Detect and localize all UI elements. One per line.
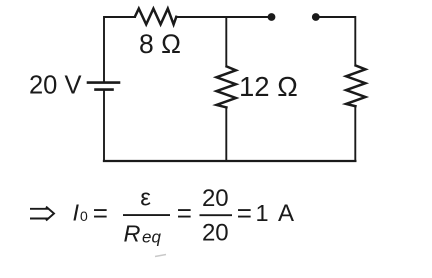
node A (junction of top wire and middle branch) bbox=[225, 17, 227, 67]
equation implies arrow bbox=[30, 207, 54, 221]
svg-text:R: R bbox=[124, 221, 141, 247]
switch S1 terminal dot left bbox=[268, 13, 276, 21]
wire top-right segment (switch to top-right corner) bbox=[316, 17, 356, 66]
wire right branch bottom (R3 to bottom-right corner) bbox=[354, 106, 356, 161]
svg-text:20: 20 bbox=[202, 185, 229, 212]
wire top-left segment (top-left corner to R1) bbox=[104, 17, 135, 82]
svg-text:A: A bbox=[278, 200, 294, 227]
svg-text:12 Ω: 12 Ω bbox=[239, 71, 298, 102]
battery V1 long plate (positive) bbox=[88, 81, 119, 84]
svg-text:I: I bbox=[73, 200, 80, 226]
svg-text:ε: ε bbox=[140, 185, 151, 212]
faint scan artifact mark bbox=[155, 255, 166, 257]
svg-text:8 Ω: 8 Ω bbox=[139, 29, 181, 59]
switch S1 terminal dot right (open gap between dots) bbox=[312, 13, 320, 21]
svg-text:eq: eq bbox=[142, 228, 161, 247]
resistor R1 (8 ohm, horizontal zigzag) bbox=[135, 9, 176, 25]
svg-text:=: = bbox=[177, 198, 192, 228]
svg-text:0: 0 bbox=[80, 208, 88, 224]
wire left below battery bbox=[103, 91, 105, 162]
svg-text:20 V: 20 V bbox=[29, 72, 81, 100]
resistor R2 (12 ohm, vertical zigzag, middle branch) bbox=[217, 67, 236, 108]
svg-text:=: = bbox=[237, 198, 252, 228]
svg-text:=: = bbox=[93, 198, 108, 228]
battery V1 short plate (negative) bbox=[96, 88, 113, 91]
wire top middle (R1 to switch dot, passes node A) bbox=[176, 16, 270, 18]
wire middle branch bottom (R2 to bottom wire) bbox=[225, 107, 227, 161]
resistor R3 (right branch, vertical zigzag) bbox=[346, 66, 365, 107]
svg-text:1: 1 bbox=[256, 200, 269, 226]
wire bottom (bottom-left corner to bottom-right corner) bbox=[104, 160, 355, 162]
svg-text:20: 20 bbox=[202, 219, 229, 246]
